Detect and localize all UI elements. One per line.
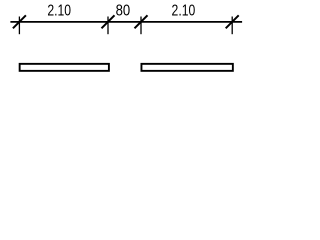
- wall rectangle right: [141, 64, 232, 71]
- wall rectangle left: [20, 64, 109, 71]
- svg-text:2.10: 2.10: [47, 3, 71, 20]
- dimension line: [10, 21, 242, 23]
- svg-text:80: 80: [116, 3, 131, 20]
- tick slash 2: [102, 15, 115, 28]
- tick slash 3: [135, 15, 148, 28]
- tick slash 4: [226, 15, 239, 28]
- tick slash 1: [13, 15, 26, 28]
- extension line 2: [107, 17, 109, 35]
- extension line 3: [140, 17, 142, 35]
- svg-text:2.10: 2.10: [172, 3, 196, 20]
- extension line 1: [18, 17, 20, 35]
- extension line 4: [231, 17, 233, 35]
